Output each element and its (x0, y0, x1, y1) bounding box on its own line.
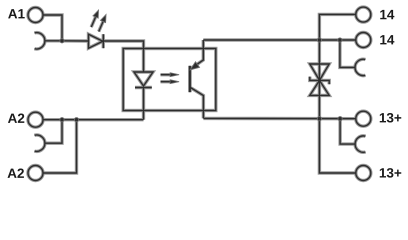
plug contact A1 (35, 33, 45, 49)
plug contact 13 (355, 136, 365, 152)
phototransistor of U1 (190, 40, 204, 118)
node A1 junction (60, 39, 64, 43)
wire photodiode to A2 rail (143, 88, 145, 120)
terminal 13 plus bottom (356, 166, 371, 181)
wire plug A1 to node (45, 40, 62, 42)
node plug branch bottom (338, 117, 342, 121)
plug contact A2 (35, 135, 45, 151)
wire to plug contact 14 (340, 40, 355, 67)
node A2 rail 1 (60, 118, 64, 122)
terminal A2 (28, 112, 43, 127)
wire A2 bottom to rail (43, 120, 77, 173)
node plug branch top (338, 38, 342, 42)
soft line underlay (halo of all wires and outlines, drawn once) (28, 7, 371, 180)
wire LED to optocoupler input (103, 41, 143, 72)
terminal A1 (28, 8, 43, 23)
terminal 13 plus (356, 111, 371, 126)
wire node to LED (62, 40, 89, 42)
optocoupler box U1 (123, 49, 216, 111)
photodiode of U1 (134, 72, 153, 88)
label A1 (8, 9, 25, 18)
label A2 bottom (8, 168, 24, 177)
collector output rail (203, 39, 355, 41)
label 14 second (380, 35, 394, 44)
coupling arrow 1 (161, 73, 180, 77)
wire A1 to junction (43, 15, 62, 41)
node TVS bottom (317, 117, 321, 121)
wire plug A2 to rail (45, 120, 62, 144)
label A2 (8, 113, 24, 122)
terminal 14 second (356, 33, 371, 48)
terminal 14 top (356, 7, 371, 22)
node TVS top (317, 38, 321, 42)
LED D1 (89, 34, 104, 48)
wire to terminal 14 top (319, 14, 356, 40)
plug contact 14 (355, 59, 365, 75)
TVS suppressor diode D2 (310, 40, 329, 119)
LED emission arrow 1 (91, 10, 98, 27)
label 14 top (380, 10, 394, 19)
coupling arrow 2 (161, 80, 180, 84)
wire to terminal 13 bottom (319, 119, 355, 173)
terminal A2 bottom (28, 166, 43, 181)
node A2 rail 2 (74, 118, 78, 122)
LED emission arrow 2 (99, 15, 106, 32)
emitter arrow of U1 (190, 62, 199, 70)
label 13 plus (380, 113, 402, 123)
wire A2 rail (43, 119, 144, 121)
wire to plug contact 13 (340, 119, 355, 144)
label 13 plus bottom (380, 168, 402, 178)
emitter output rail (203, 117, 355, 119)
